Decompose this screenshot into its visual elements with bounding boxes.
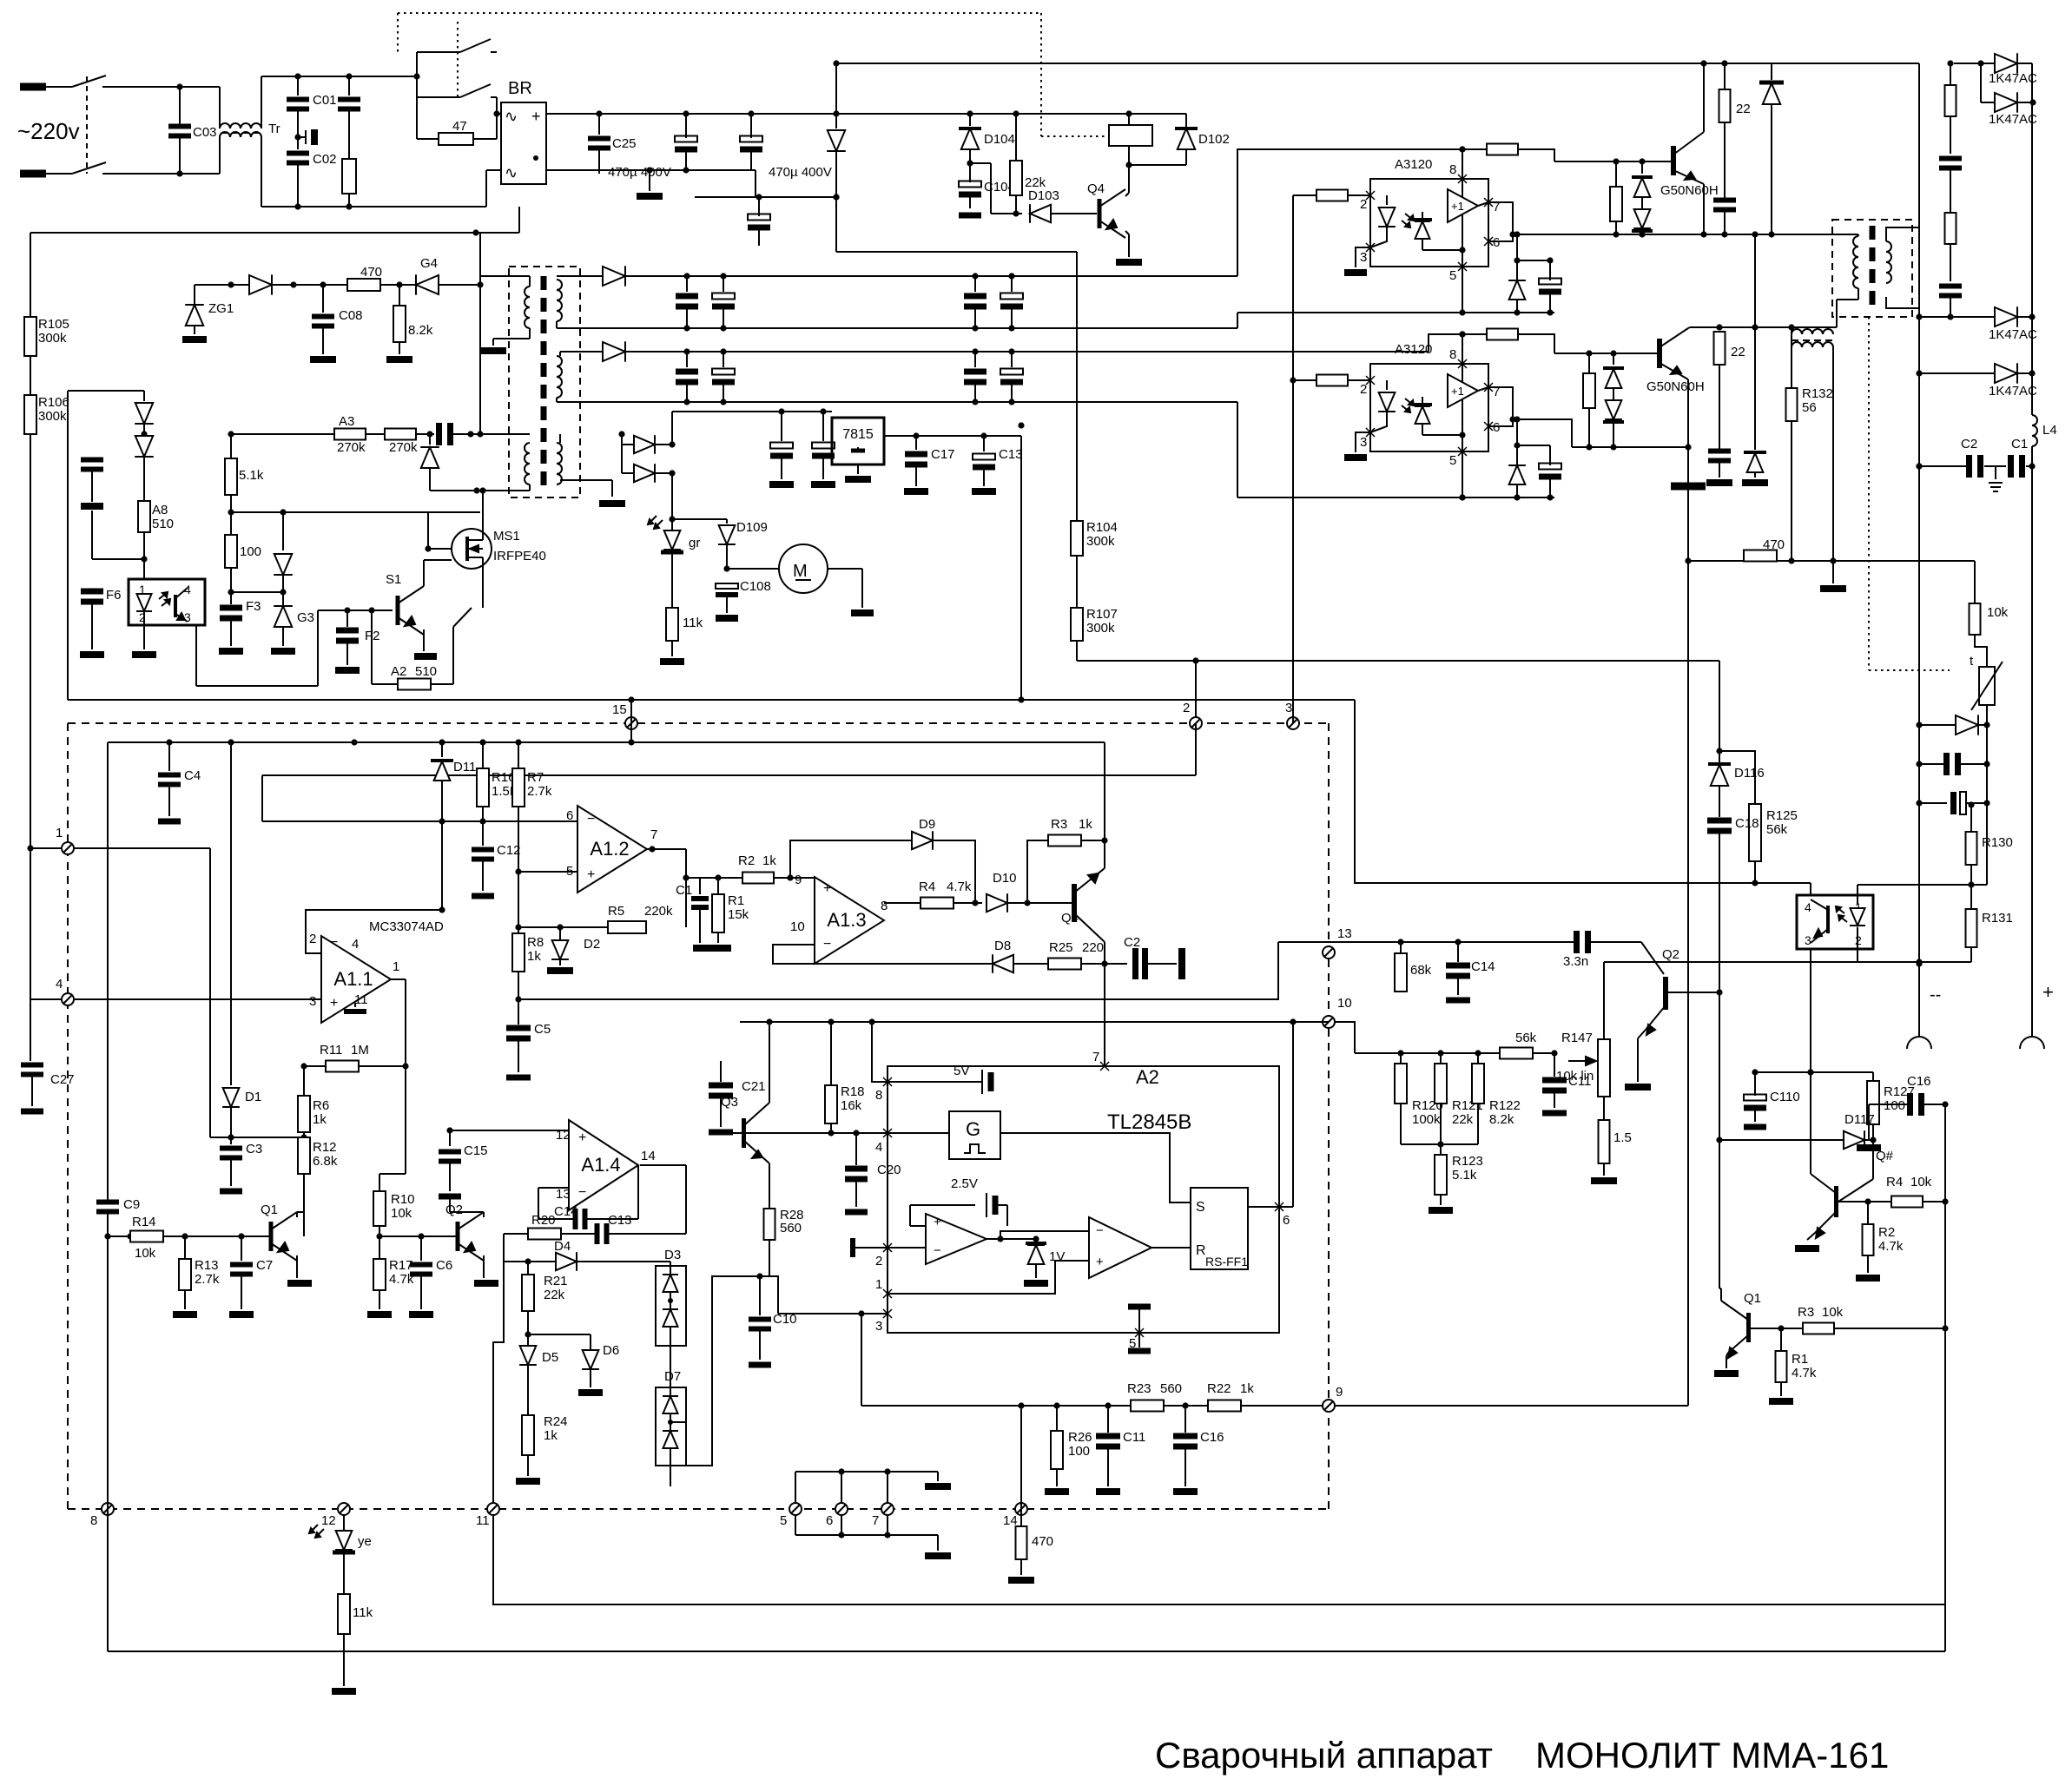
choke Tr winding bottom (219, 137, 221, 174)
thick cap 22no2 (1708, 449, 1731, 454)
resistor R28 560 (769, 1202, 770, 1209)
vertical 1176 up (1020, 556, 1022, 700)
wire mains top (102, 86, 220, 88)
capacitor C9 (96, 1200, 119, 1205)
diode D6 (590, 1334, 591, 1349)
svg-text:R18: R18 (841, 1084, 865, 1099)
svg-text:300k: 300k (38, 331, 67, 346)
wire S1 base row (318, 609, 393, 611)
svg-text:10k: 10k (135, 1246, 156, 1261)
terminal L mains (20, 83, 46, 91)
comp1 out (987, 1238, 1000, 1240)
svg-text:Tr: Tr (268, 122, 280, 136)
pin7 marker (1100, 1062, 1109, 1071)
wire D10 to Q4b (1008, 902, 1072, 904)
A3120 block1 lower rail (1237, 312, 1554, 313)
wire v-rail 855 (108, 741, 1105, 743)
A3120 LED arrows (1402, 221, 1410, 227)
snubber col resistor1 (1950, 63, 1951, 85)
wire R2 row (686, 877, 742, 879)
wire 644 (92, 558, 144, 560)
junction A8 bottom (143, 532, 145, 579)
wire R4 to D10 (954, 902, 982, 904)
svg-text:5.1k: 5.1k (1452, 1168, 1477, 1183)
resistor A8 510 (143, 473, 145, 501)
capacitor 470u 400V no2 (740, 136, 762, 142)
diode D117 (1844, 1131, 1864, 1149)
diode D at 300 (249, 275, 272, 294)
capacitor C03 (179, 87, 181, 124)
svg-text:G4: G4 (420, 256, 438, 271)
svg-text:R1: R1 (1792, 1352, 1808, 1367)
svg-text:R20: R20 (531, 1213, 556, 1228)
ground C11b (1096, 1488, 1120, 1495)
svg-text:C02: C02 (313, 152, 337, 167)
wire pin1 row left (670, 1276, 778, 1466)
svg-text:+: + (2042, 981, 2054, 1003)
svg-text:S1: S1 (386, 572, 401, 587)
svg-text:C27: C27 (50, 1072, 75, 1087)
wire 378 rail (560, 327, 1237, 329)
capacitor pair 1123 upper (974, 276, 976, 292)
wire G2 emitter down (1687, 379, 1689, 447)
wire 318 ext (975, 275, 1012, 277)
svg-text:IRFPE40: IRFPE40 (493, 549, 546, 563)
resistor 56k hor (1500, 1048, 1533, 1059)
svg-text:C21: C21 (742, 1079, 766, 1094)
block2 out row (1513, 419, 1572, 447)
main transformer dashed box (1832, 220, 1912, 317)
wire S1 collector (423, 560, 425, 586)
wire aux bl bottom (529, 484, 531, 491)
wire 2021 down (1754, 234, 1756, 327)
wire secondary leads (1886, 227, 1919, 241)
wire node9 right (1335, 1405, 1688, 1407)
ground C08 (310, 356, 336, 363)
svg-text:C20: C20 (877, 1163, 901, 1177)
driver1 diodes (1641, 161, 1643, 174)
svg-text:3: 3 (1285, 701, 1292, 715)
svg-text:D6: D6 (603, 1343, 619, 1358)
svg-text:R21: R21 (544, 1274, 568, 1288)
diode 1K47AC no1 (1995, 54, 2017, 73)
ground Q2 right (1625, 1084, 1651, 1090)
bar C27 (21, 1109, 43, 1115)
dotted link switch (457, 22, 459, 97)
wire 855 to Q4 coll (1104, 742, 1105, 840)
wire A1.2 plus in (518, 871, 577, 873)
svg-text:4: 4 (56, 977, 63, 992)
wire row 537 (1919, 465, 1966, 467)
svg-text:+1: +1 (1451, 385, 1464, 398)
capacitor white 833 upper (723, 276, 724, 292)
A3120 input resistor (1316, 190, 1348, 201)
block1 input vert (1292, 195, 1294, 723)
node 3 (1287, 717, 1299, 729)
resistor R106 300k (30, 356, 31, 395)
svg-text:∿: ∿ (505, 164, 518, 181)
svg-text:D109: D109 (736, 520, 768, 535)
node 9 (1323, 1400, 1335, 1412)
svg-text:1: 1 (875, 1277, 882, 1292)
bar C104 bottom (959, 213, 981, 219)
resistor 22k (1015, 114, 1017, 161)
dashed box top (68, 722, 1329, 724)
dashed box right (1328, 723, 1330, 1509)
wire q2 row 1424 (379, 1235, 456, 1237)
capacitor C3 (230, 1137, 232, 1144)
ground C108 (716, 615, 738, 622)
svg-text:−: − (330, 935, 338, 950)
ground F2 (335, 667, 360, 674)
resistor 68k (1400, 942, 1402, 953)
relay coil box (1109, 125, 1152, 146)
svg-text:C03: C03 (193, 125, 217, 140)
capacitor C1 small (699, 878, 701, 894)
resistor 470 hor (347, 279, 380, 291)
svg-text:C14: C14 (1471, 959, 1495, 974)
diode D10 (987, 894, 1007, 912)
svg-text:4.7k: 4.7k (1792, 1366, 1817, 1380)
wire Q3 collector up (769, 1022, 770, 1103)
svg-text:R147: R147 (1561, 1031, 1593, 1045)
svg-text:300k: 300k (38, 409, 67, 424)
optocoupler U-F box (129, 579, 205, 625)
capacitor 948 (822, 412, 824, 441)
svg-text:22k: 22k (1452, 1112, 1474, 1127)
svg-text:C2: C2 (1961, 437, 1977, 451)
svg-text:G: G (966, 1118, 980, 1140)
snubber col resistor2 (1945, 213, 1957, 244)
wire aux winding2 bottom (556, 321, 558, 328)
svg-text:6: 6 (826, 1513, 833, 1528)
resistor 11k ye (338, 1594, 350, 1634)
wire 318 jog up to block1 rail (1237, 149, 1487, 276)
resistor A3 270k (334, 429, 366, 440)
svg-text:C16: C16 (1200, 1430, 1224, 1445)
capacitor 3p3n (1401, 941, 1574, 943)
svg-text:R13: R13 (195, 1258, 219, 1273)
svg-text:10k lin: 10k lin (1556, 1069, 1594, 1084)
svg-text:D10: D10 (993, 871, 1017, 886)
wire relay to D102 (1129, 164, 1186, 166)
wire left drop (30, 232, 519, 234)
node 4 (62, 993, 74, 1005)
svg-text:C12: C12 (497, 843, 521, 858)
svg-text:1M: 1M (351, 1043, 369, 1058)
svg-text:+: + (1096, 1255, 1104, 1269)
G box (949, 1111, 1000, 1159)
svg-text:4: 4 (352, 937, 359, 952)
svg-text:D116: D116 (1734, 766, 1765, 781)
svg-text:R12: R12 (313, 1140, 337, 1155)
IC A2 box (888, 1066, 1279, 1333)
svg-text:7: 7 (872, 1513, 879, 1528)
svg-text:D103: D103 (1028, 188, 1059, 203)
ground BR minus (637, 193, 663, 200)
svg-text:RS-FF1: RS-FF1 (1205, 1255, 1248, 1268)
diode at 326 (282, 512, 284, 550)
node 2 (1190, 717, 1202, 729)
svg-text:R1: R1 (728, 893, 744, 908)
svg-text:470µ 400V: 470µ 400V (769, 165, 832, 180)
svg-text:2.7k: 2.7k (527, 784, 552, 799)
resistor 1p5 (1599, 1120, 1610, 1163)
pin8 wire (872, 1022, 888, 1082)
resistor R17 4.7k (379, 1236, 380, 1259)
resistor R8 1k (518, 927, 519, 933)
ground 8.2k (386, 356, 412, 363)
wire bottom rail 1902 (108, 1651, 1945, 1652)
wire A1.3 minus in (773, 945, 993, 964)
wire D4 right to D3 (577, 1261, 670, 1262)
ground 470 drv (1832, 561, 1834, 583)
A3120 photodiode (1413, 218, 1432, 221)
zener G3 (282, 592, 284, 606)
bar C10 (749, 1362, 771, 1368)
svg-text:8.2k: 8.2k (1489, 1112, 1514, 1127)
wire A1.4 minus (538, 1187, 569, 1189)
capacitor C20 (855, 1133, 857, 1165)
wire 893 row (262, 774, 1196, 776)
opto LED (137, 594, 152, 611)
svg-text:8: 8 (1449, 162, 1456, 177)
wire rail 227 (695, 196, 836, 198)
wire A3 row (231, 433, 334, 435)
G out wire (1000, 1133, 1191, 1202)
wire R2 to A1.3 (774, 877, 815, 879)
ladder bottom ground (937, 1535, 939, 1551)
wire row 270 (1704, 234, 1837, 235)
wire comp1 to comp2 (1000, 1231, 1089, 1239)
wire 761 right (1719, 661, 1720, 768)
ground R13 (173, 1311, 197, 1318)
wire BR in top (497, 113, 501, 115)
resistor 270k no2 (385, 429, 416, 440)
A3120 LED (1386, 380, 1388, 390)
current transformer coils (1792, 329, 1833, 334)
resistor R132 56 (1791, 327, 1792, 388)
node 13 (1323, 946, 1335, 959)
resistor 47 (416, 97, 418, 139)
mosfet gate wire (428, 548, 452, 550)
capacitor F6 (81, 589, 103, 595)
svg-text:12: 12 (321, 1513, 336, 1528)
capacitor C12 (482, 821, 484, 846)
resistor block1 top (1487, 144, 1518, 155)
svg-text:C2: C2 (1124, 935, 1140, 950)
ground small C2C1 (1984, 465, 2006, 467)
svg-text:MS1: MS1 (493, 529, 520, 544)
svg-text:D4: D4 (554, 1239, 571, 1254)
svg-text:D3: D3 (664, 1248, 681, 1262)
svg-text:D8: D8 (994, 939, 1011, 953)
wire node1 stub (30, 847, 61, 849)
bar C4 (158, 819, 181, 825)
opto pin4 wire down (195, 625, 197, 686)
thermistor t (1868, 669, 1870, 671)
dotted line top (398, 12, 1041, 14)
wire row 365 (1919, 316, 1995, 318)
svg-text:+: + (578, 1130, 586, 1145)
zener D2 (559, 927, 561, 939)
ground Q1 right (1726, 1353, 1728, 1356)
ground R123 (1429, 1207, 1453, 1214)
svg-text:C9: C9 (123, 1197, 140, 1212)
svg-text:C18: C18 (1735, 816, 1759, 831)
svg-text:5V: 5V (954, 1064, 969, 1078)
svg-text:C10: C10 (773, 1312, 797, 1327)
choke Tr core dashes (221, 132, 261, 134)
driver2 R down1 (1588, 353, 1590, 373)
bar C11 right (1542, 1110, 1567, 1117)
bridge BR (501, 102, 546, 184)
svg-text:Сварочный аппарат: Сварочный аппарат (1155, 1735, 1493, 1776)
wire 1177 node10 row (740, 1021, 1329, 1023)
wire driver2 lower row (1572, 446, 1688, 448)
wire A1.2 out (647, 848, 686, 850)
ladder top ground (937, 1472, 939, 1481)
resistor block2 top (1487, 329, 1518, 340)
svg-text:A1.4: A1.4 (581, 1154, 620, 1176)
svg-text:8.2k: 8.2k (408, 323, 433, 338)
capacitor white 1165 lower (1011, 352, 1013, 367)
diode under cap (429, 434, 431, 445)
resistor R18 16k (830, 1022, 832, 1085)
motor M (727, 568, 780, 570)
resistor 22 no1 (1724, 63, 1726, 89)
ground F6 (80, 651, 104, 658)
svg-text:C11: C11 (1123, 1430, 1145, 1445)
resistor R5 220k (608, 921, 646, 933)
svg-text:G3: G3 (297, 610, 314, 625)
svg-text:220k: 220k (644, 904, 673, 919)
cap 880 (1986, 725, 1988, 803)
bar C5 (506, 1075, 531, 1081)
zener D116 (1708, 762, 1731, 766)
vertical 1377 (1195, 661, 1197, 775)
wire block1 res to base (1518, 149, 1554, 161)
led ye (343, 1515, 345, 1530)
resistor 22 no2 (1688, 327, 1690, 328)
resistor R21 22k (527, 1262, 529, 1275)
wire diode1 up (655, 444, 672, 445)
ground 1V (1024, 1280, 1048, 1287)
block2 input wire (1293, 379, 1316, 381)
diode D103 (1030, 205, 1051, 222)
A3120 rail (1462, 149, 1463, 313)
wire R10 column (379, 1174, 380, 1236)
switch S2 pole2 (416, 76, 418, 97)
wire A1.1 out (391, 978, 406, 980)
svg-text:D11: D11 (453, 760, 476, 774)
ground C7 (229, 1311, 254, 1318)
svg-text:C25: C25 (612, 136, 637, 151)
resistor 10k top right (1974, 561, 1976, 603)
wire G2 base row (1554, 353, 1657, 354)
ground R26 (1045, 1488, 1069, 1495)
capacitor C10 (759, 1276, 761, 1315)
wire top right rail (1947, 60, 1953, 66)
svg-text:100: 100 (1884, 1098, 1905, 1113)
capacitor C16b (1184, 1406, 1186, 1433)
wire 1470 to pin1 (711, 1275, 713, 1277)
capacitor C01 (297, 76, 299, 96)
wire top rail right (1700, 60, 1706, 66)
aux transformer dashed box (509, 267, 580, 497)
IC 7815 (832, 418, 884, 465)
ground at C01 (298, 136, 306, 138)
diode 1K47AC no2 (1980, 63, 1982, 102)
capacitor pair 1123 lower (974, 352, 976, 367)
svg-text:300k: 300k (1086, 621, 1115, 636)
wire Q2 collector up (483, 1212, 485, 1217)
svg-text:4.7k: 4.7k (1878, 1239, 1904, 1254)
svg-text:A3120: A3120 (1395, 157, 1432, 172)
capacitor F2 (346, 610, 348, 627)
wire out down (405, 1066, 406, 1174)
svg-text:R22: R22 (1207, 1381, 1231, 1396)
ct wires (1791, 327, 1792, 334)
opto LED arrows (159, 592, 168, 599)
resistor R23 560 (1131, 1400, 1164, 1412)
wire comp2 plus (888, 1261, 1089, 1294)
opamp A1.3 (815, 877, 884, 964)
svg-text:−: − (934, 1243, 941, 1258)
wire 1108 row (1604, 961, 1919, 963)
wire driver1 lower row (1554, 234, 1704, 235)
nodes 567 ladder top (795, 1471, 938, 1473)
resistor R127 100 (1872, 1072, 1874, 1081)
opto out transistor (1826, 906, 1830, 933)
wire A1.1 plus (75, 998, 321, 1000)
diode at 963 (835, 114, 837, 128)
svg-text:470: 470 (360, 265, 382, 280)
opto out LED (1857, 895, 1858, 905)
capacitor C5 (506, 1025, 531, 1031)
aux winding bottom left (525, 443, 530, 484)
svg-text:C08: C08 (339, 308, 363, 323)
wire Q2 base row (1668, 992, 1719, 993)
bar C20 (845, 1209, 868, 1216)
capacitor C11b (1107, 1406, 1109, 1433)
svg-text:R17: R17 (389, 1258, 413, 1273)
svg-text:68k: 68k (1410, 963, 1432, 978)
wire minus rail right (650, 169, 756, 171)
wire 946 row (262, 820, 577, 822)
resistor 100 (230, 512, 232, 535)
bar C3 (220, 1189, 242, 1195)
capacitor C15 (449, 1130, 451, 1146)
node 1 (62, 842, 74, 854)
resistor R3 10k right (1803, 1323, 1834, 1334)
aux winding mid right (557, 356, 562, 398)
capacitor C7 (241, 1236, 242, 1261)
svg-text:−: − (587, 812, 595, 827)
snubber col cap2 (1950, 244, 1951, 281)
svg-text:R132: R132 (1802, 386, 1833, 401)
capacitor C18 (1707, 818, 1732, 824)
wire 290 to R104 column (836, 251, 1077, 253)
capacitor white 1165 upper (1011, 276, 1013, 292)
ground R17 (367, 1311, 392, 1318)
wire cap to transformer (452, 433, 528, 435)
svg-text:R4: R4 (919, 880, 935, 894)
bar C110 (1744, 1124, 1766, 1130)
svg-text:6: 6 (566, 808, 573, 823)
bar G2 emitter (1687, 447, 1689, 561)
ground Qsharp emitter (1807, 1233, 1815, 1240)
